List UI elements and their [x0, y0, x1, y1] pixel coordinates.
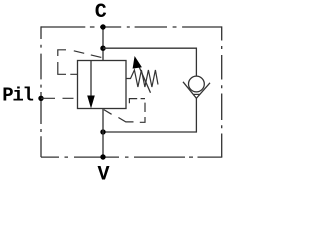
node V port on envelope — [100, 154, 105, 159]
enclosure dash-dot border: top edge — [41, 26, 222, 28]
pilot line from Pil port (dashed) — [41, 97, 78, 99]
check valve seat chord — [193, 93, 200, 95]
drain dashed box — [129, 99, 145, 123]
wire branch to check valve (top) — [103, 48, 196, 76]
check valve seat V — [183, 82, 210, 99]
drain line dashed: diagonal from valve bottom — [104, 110, 134, 122]
wire C port to valve square top — [102, 27, 104, 61]
pilot line from C line (dashed, diagonal + box to valve left) — [74, 51, 102, 58]
svg-text:C: C — [95, 1, 107, 24]
svg-text:V: V — [98, 164, 110, 184]
enclosure dash-dot border: right edge — [221, 26, 223, 157]
adjustable spring — [126, 70, 158, 87]
relief valve square U1 — [78, 61, 127, 109]
node Pil port on envelope — [38, 96, 43, 101]
enclosure dash-dot border: bottom edge — [41, 156, 222, 158]
wire check valve to return line — [103, 98, 196, 132]
node C port on envelope — [100, 24, 105, 29]
check valve circle CV1 — [189, 76, 205, 92]
spring adjustment arrow — [137, 62, 151, 93]
enclosure dash-dot border: left edge — [40, 26, 42, 157]
svg-text:Pil: Pil — [2, 85, 33, 107]
wire valve bottom to V port — [102, 109, 104, 158]
flow path arrow inside valve — [90, 61, 92, 97]
node pilot branch junction — [100, 46, 105, 51]
node return junction — [100, 129, 105, 134]
